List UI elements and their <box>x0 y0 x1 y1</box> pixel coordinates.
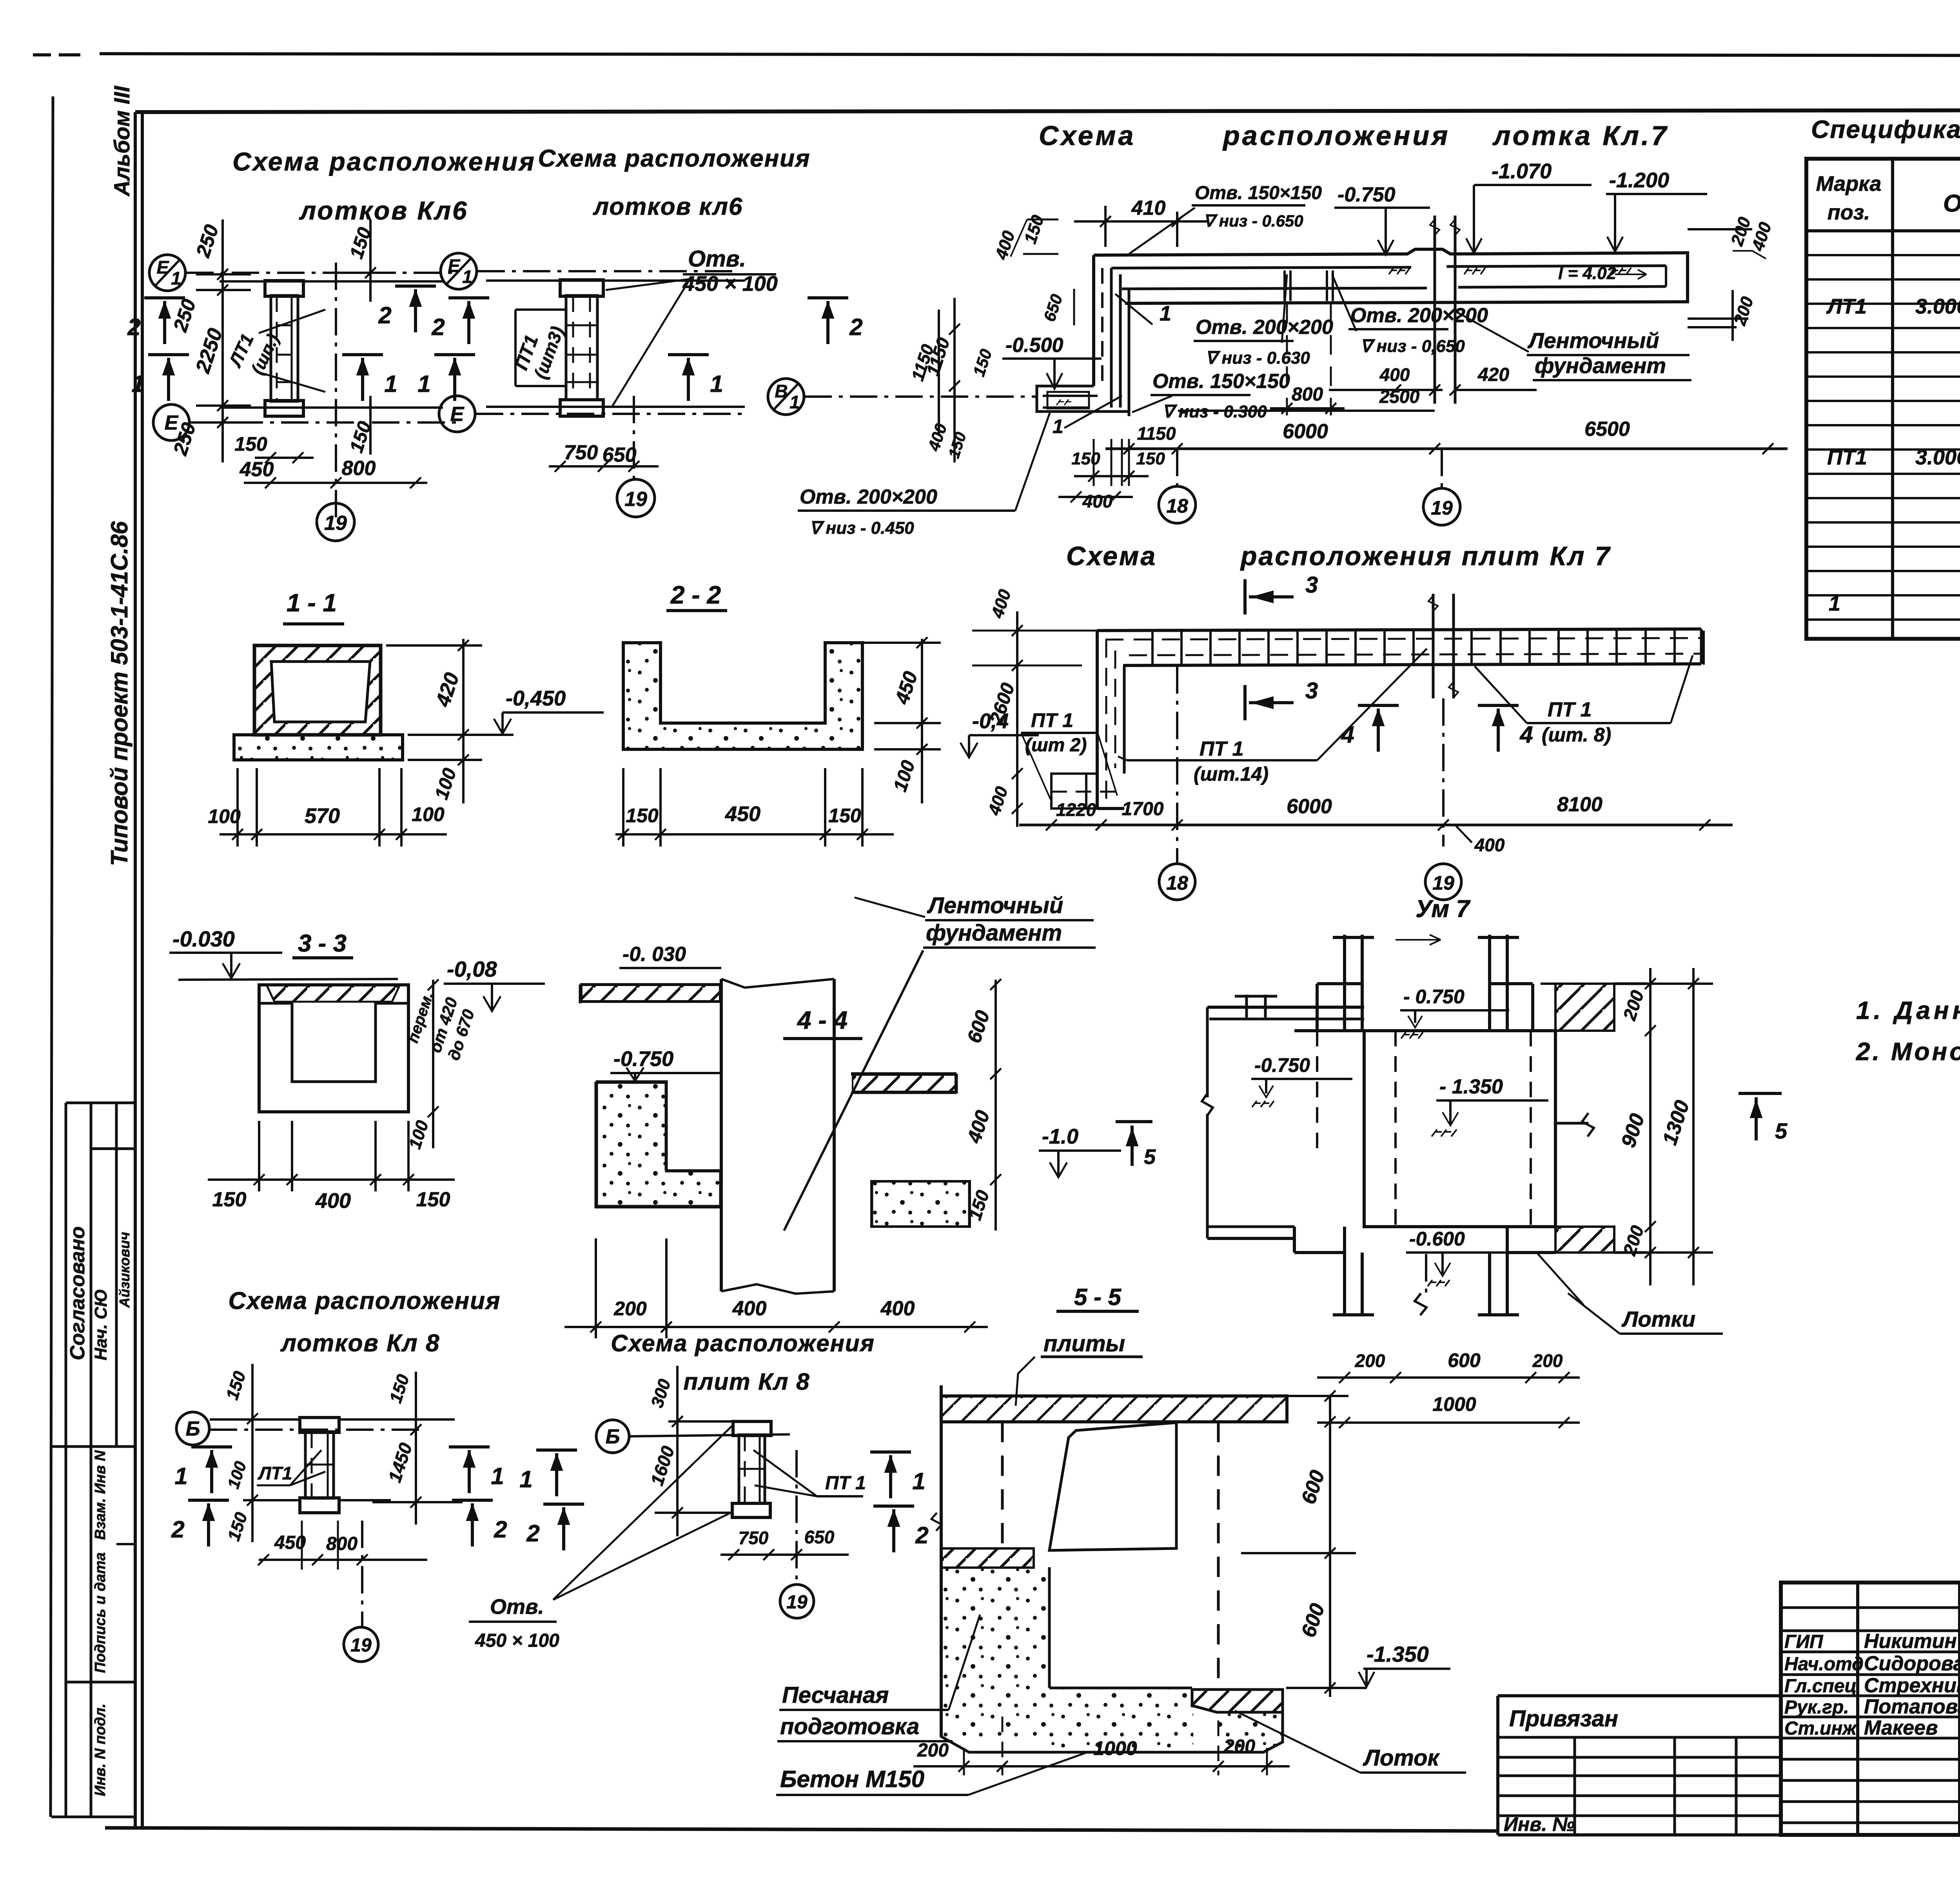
svg-text:2: 2 <box>431 314 445 340</box>
um7 left arm bottom band <box>1207 1225 1294 1228</box>
svg-text:-0.030: -0.030 <box>172 926 235 951</box>
bottom dims plan2 <box>549 465 659 468</box>
svg-text:- 0.750: - 0.750 <box>1403 986 1465 1008</box>
4-4 left footing step <box>596 1082 721 1171</box>
svg-text:2: 2 <box>378 302 391 328</box>
svg-text:Лотки: Лотки <box>1621 1307 1695 1331</box>
right short dim 150 pair <box>369 219 372 302</box>
svg-text:фундамент: фундамент <box>1535 353 1666 378</box>
4-4 right dim column <box>995 980 997 1231</box>
svg-text:расположения: расположения <box>1222 120 1450 151</box>
svg-text:l = 4.02: l = 4.02 <box>1558 264 1617 283</box>
spec table grid <box>1806 159 1960 639</box>
svg-text:1: 1 <box>1160 302 1171 325</box>
4-4 left slab hatched <box>580 983 721 986</box>
svg-text:2: 2 <box>915 1522 928 1548</box>
svg-text:200: 200 <box>1355 1351 1385 1371</box>
svg-text:3.006.1-2/82 вып. 1-1: 3.006.1-2/82 вып. 1-1 <box>1915 295 1960 318</box>
svg-text:1: 1 <box>462 266 472 287</box>
um7 left arm break <box>1202 1093 1213 1115</box>
svg-text:ПТ 1: ПТ 1 <box>825 1473 866 1494</box>
svg-text:Лоток: Лоток <box>1363 1745 1440 1771</box>
svg-text:19: 19 <box>350 1635 372 1656</box>
svg-text:Отв. 150×150: Отв. 150×150 <box>1195 183 1322 203</box>
plate ticks <box>1151 631 1154 665</box>
svg-text:750: 750 <box>564 441 598 464</box>
bottom dims 2-2 <box>615 833 894 836</box>
svg-text:(шт.14): (шт.14) <box>1194 763 1269 785</box>
svg-text:1: 1 <box>491 1463 504 1489</box>
svg-text:1: 1 <box>384 371 397 397</box>
svg-text:лотка Кл.7: лотка Кл.7 <box>1492 120 1669 151</box>
section mark 3 lower <box>1243 685 1247 720</box>
5-5 concrete speckle <box>942 1568 1048 1741</box>
svg-text:800: 800 <box>342 457 376 480</box>
bottom dims plan1 <box>255 457 314 459</box>
title block outer <box>1781 1583 1960 1835</box>
svg-text:Отв. 150×150: Отв. 150×150 <box>1152 370 1290 393</box>
svg-text:плиты: плиты <box>1044 1331 1125 1356</box>
svg-text:ЛТ1: ЛТ1 <box>1826 295 1867 318</box>
svg-text:Инв. №: Инв. № <box>1504 1813 1575 1835</box>
axis circle E <box>153 404 189 441</box>
kl8-1 bottom dims <box>259 1559 427 1561</box>
axis lines #2 <box>477 270 733 272</box>
svg-text:Сидорова: Сидорова <box>1864 1652 1960 1675</box>
svg-text:400: 400 <box>1379 364 1410 385</box>
svg-text:∇ низ - 0.650: ∇ низ - 0.650 <box>1203 212 1303 230</box>
svg-text:1: 1 <box>789 392 800 412</box>
svg-text:-0.750: -0.750 <box>1338 183 1396 206</box>
kl8-1 section marks <box>191 1445 232 1448</box>
svg-text:400: 400 <box>732 1297 767 1320</box>
section marks plan2 <box>448 296 489 299</box>
dim 420/100 right of 1-1 <box>462 639 465 803</box>
sidebar approval table <box>66 1102 135 1104</box>
kl8-2 otv leaders <box>553 1424 734 1600</box>
svg-text:-0,08: -0,08 <box>447 957 497 981</box>
svg-text:200: 200 <box>613 1298 647 1320</box>
svg-text:-1.200: -1.200 <box>1609 169 1669 192</box>
svg-text:18: 18 <box>1166 872 1188 894</box>
kl7 band outline <box>1094 249 1688 303</box>
svg-text:лотков кл6: лотков кл6 <box>593 193 743 220</box>
5-5 mid hatch strip <box>941 1548 1034 1568</box>
svg-text:100: 100 <box>208 805 241 827</box>
4-4 bottom dims <box>564 1326 988 1328</box>
section marks plan1 <box>144 296 185 299</box>
svg-text:5: 5 <box>1775 1118 1788 1143</box>
kl7 dims 150 150 400 under leg <box>1082 452 1172 453</box>
svg-text:Схема: Схема <box>1039 120 1136 151</box>
axis circle B kl8-2 <box>596 1420 629 1453</box>
svg-text:2500: 2500 <box>1379 386 1420 407</box>
center dashdot #2 <box>633 396 635 482</box>
privyazan table <box>1498 1694 1781 1697</box>
kl8-1 channel <box>300 1418 339 1432</box>
svg-text:1150: 1150 <box>1137 423 1176 444</box>
svg-text:Схема расположения: Схема расположения <box>538 145 810 172</box>
svg-text:2: 2 <box>494 1516 507 1543</box>
svg-text:-0.750: -0.750 <box>1254 1054 1310 1076</box>
svg-text:Бетон М150: Бетон М150 <box>780 1766 924 1792</box>
svg-text:1: 1 <box>710 371 723 397</box>
5-5 inner panel <box>1049 1423 1176 1550</box>
svg-text:Схема расположения: Схема расположения <box>611 1330 875 1356</box>
svg-text:Потапова: Потапова <box>1864 1695 1960 1718</box>
svg-text:Типовой проект 503-1-41С.86: Типовой проект 503-1-41С.86 <box>106 521 132 866</box>
plity bottom dims <box>1019 824 1733 827</box>
channel PT1 plan #2 <box>560 280 603 296</box>
axis circle B kl8-1 <box>176 1412 209 1445</box>
kl7 right end dims <box>1688 228 1752 230</box>
svg-text:(шт. 8): (шт. 8) <box>1542 724 1611 746</box>
kl7 dim 800 <box>1270 407 1345 410</box>
svg-text:Подпись и дата: Подпись и дата <box>92 1552 109 1673</box>
plity foot box <box>1051 774 1097 809</box>
svg-text:Отв.: Отв. <box>490 1595 544 1619</box>
dim 410 kl7 <box>1104 206 1107 247</box>
svg-text:3 - 3: 3 - 3 <box>298 930 347 957</box>
svg-text:Отв. 200×200: Отв. 200×200 <box>1196 316 1333 339</box>
svg-text:-0.600: -0.600 <box>1409 1228 1465 1250</box>
section 1-1 hatched walls <box>254 645 381 735</box>
svg-text:-1.350: -1.350 <box>1367 1642 1429 1666</box>
svg-text:Е: Е <box>157 257 169 277</box>
frame left double edge <box>134 112 137 1828</box>
svg-text:150: 150 <box>626 805 659 827</box>
um7 box <box>1364 1031 1555 1227</box>
kl7 left vertical dims <box>953 298 956 462</box>
svg-text:4: 4 <box>1341 721 1354 748</box>
svg-text:4: 4 <box>1519 721 1533 748</box>
dims right of 2-2 <box>921 639 923 803</box>
svg-text:570: 570 <box>305 804 340 828</box>
svg-text:∇ низ - 0.630: ∇ низ - 0.630 <box>1205 348 1310 368</box>
kl8-2 channel <box>733 1421 771 1436</box>
4-4 column <box>720 979 723 1291</box>
svg-text:-1.070: -1.070 <box>1492 160 1552 183</box>
section 2-2 body U-shape <box>623 643 862 749</box>
5-5 right dims <box>1329 1396 1331 1697</box>
kl7 left drop leg <box>1092 255 1095 386</box>
svg-text:-0. 030: -0. 030 <box>622 943 686 966</box>
sidebar outer edge <box>51 96 53 1817</box>
svg-text:плит Кл 8: плит Кл 8 <box>684 1369 810 1395</box>
svg-text:200: 200 <box>917 1740 949 1761</box>
grid circles 18 19 kl7 <box>1159 486 1196 523</box>
um7 right dims <box>1649 968 1651 1285</box>
svg-text:4 - 4: 4 - 4 <box>797 1006 848 1034</box>
svg-text:2 - 2: 2 - 2 <box>670 581 721 609</box>
svg-text:Отв. 200×200: Отв. 200×200 <box>1350 304 1488 327</box>
um7 bottom dims <box>1317 1376 1580 1379</box>
kl8-1 leader to circle 19 <box>361 1521 363 1626</box>
svg-text:400: 400 <box>315 1189 351 1213</box>
svg-text:150: 150 <box>828 805 861 827</box>
svg-text:19: 19 <box>324 512 347 535</box>
4-4 right slab <box>851 1072 956 1075</box>
section mark 3 upper <box>1243 579 1247 615</box>
svg-text:Е: Е <box>448 256 461 276</box>
svg-text:200: 200 <box>1532 1351 1563 1371</box>
svg-text:1: 1 <box>519 1466 532 1492</box>
svg-text:6000: 6000 <box>1287 795 1332 818</box>
svg-text:Гл.спец: Гл.спец <box>1784 1676 1857 1697</box>
svg-text:Ленточный: Ленточный <box>1527 328 1659 353</box>
svg-text:19: 19 <box>1431 497 1453 519</box>
frame bottom edge <box>105 1828 1499 1831</box>
detail circle 19 plan1 <box>317 503 354 541</box>
plity left leg <box>1096 631 1099 809</box>
kl8-1 left dim line <box>251 1364 254 1542</box>
kl7 dims 400 2500 420 <box>1329 389 1443 391</box>
svg-text:Ст.инж: Ст.инж <box>1784 1718 1857 1739</box>
svg-text:Е: Е <box>450 403 465 426</box>
svg-text:лотков Кл 8: лотков Кл 8 <box>280 1330 440 1357</box>
axis B/1 kl7 <box>768 379 804 415</box>
svg-text:Нач. СЮ: Нач. СЮ <box>91 1289 111 1360</box>
axis line E/1 <box>186 272 457 274</box>
um7 bottom stub <box>1343 1227 1346 1315</box>
svg-text:750: 750 <box>739 1528 769 1548</box>
svg-text:19: 19 <box>624 488 647 511</box>
5-5 concrete outline <box>941 1568 1283 1752</box>
svg-text:19: 19 <box>786 1592 808 1613</box>
svg-text:-1.0: -1.0 <box>1042 1125 1078 1148</box>
svg-text:400: 400 <box>1474 835 1505 855</box>
svg-text:Б: Б <box>606 1425 620 1448</box>
svg-text:8100: 8100 <box>1557 793 1602 816</box>
svg-text:1: 1 <box>171 268 181 288</box>
svg-text:3: 3 <box>1305 572 1318 598</box>
um7 right arm hatched plates <box>1555 984 1614 1031</box>
svg-text:∇ низ - 0.450: ∇ низ - 0.450 <box>809 518 914 538</box>
grid circles 18 19 plity <box>1159 864 1195 900</box>
svg-text:Отв.: Отв. <box>688 246 746 272</box>
detail circle 19 plan2 <box>617 479 655 517</box>
svg-text:2: 2 <box>171 1516 184 1543</box>
svg-text:5 - 5: 5 - 5 <box>1074 1284 1122 1310</box>
trench walls plan1 <box>220 280 443 283</box>
section 1-1 body <box>254 645 381 735</box>
svg-text:600: 600 <box>1448 1349 1481 1371</box>
svg-text:18: 18 <box>1166 495 1188 517</box>
kl8-2 circle 19 <box>780 1584 814 1618</box>
svg-text:Схема расположения: Схема расположения <box>228 1287 501 1314</box>
svg-text:Марка: Марка <box>1816 172 1882 196</box>
svg-text:В: В <box>775 381 788 401</box>
kl7 foot box <box>1037 386 1129 412</box>
svg-text:Айзикович: Айзикович <box>116 1232 132 1308</box>
svg-text:200: 200 <box>1223 1736 1255 1757</box>
section 1-1 base slab <box>234 735 403 760</box>
svg-text:Ум 7: Ум 7 <box>1416 896 1471 923</box>
svg-text:150: 150 <box>1071 449 1100 468</box>
svg-text:Привязан: Привязан <box>1509 1706 1618 1731</box>
svg-text:400: 400 <box>1082 491 1113 511</box>
um7 right arm <box>1555 1122 1588 1125</box>
svg-text:800: 800 <box>1292 384 1323 405</box>
svg-text:800: 800 <box>326 1534 358 1554</box>
label PT1 sht3 box <box>515 308 566 311</box>
svg-text:1: 1 <box>174 1463 187 1489</box>
svg-text:Инв. N подл.: Инв. N подл. <box>92 1704 109 1796</box>
svg-text:ПТ 1: ПТ 1 <box>1548 698 1592 721</box>
svg-text:450: 450 <box>240 458 274 481</box>
svg-text:Обозначение: Обозначение <box>1943 190 1960 217</box>
svg-text:150: 150 <box>1136 449 1165 468</box>
axis circle E/1 <box>149 255 185 291</box>
kl7 bottom dim row <box>1105 448 1788 450</box>
svg-text:- 1.350: - 1.350 <box>1439 1075 1503 1098</box>
svg-text:Песчаная: Песчаная <box>782 1682 889 1708</box>
svg-text:400: 400 <box>880 1297 915 1320</box>
svg-text:3.006.1-2/82 вып. 1-2: 3.006.1-2/82 вып. 1-2 <box>1915 446 1960 469</box>
svg-text:Альбом III: Альбом III <box>109 85 134 197</box>
svg-text:-0,450: -0,450 <box>506 687 566 710</box>
plity wall break grid19 <box>1432 594 1435 698</box>
svg-text:фундамент: фундамент <box>926 920 1062 946</box>
svg-text:Б: Б <box>186 1418 200 1440</box>
svg-text:ЛТ1: ЛТ1 <box>258 1463 292 1483</box>
svg-text:1 - 1: 1 - 1 <box>287 589 337 617</box>
svg-text:450: 450 <box>725 802 760 826</box>
5-5 top slab <box>941 1396 1287 1422</box>
kl8-2 vertical dim <box>676 1366 679 1536</box>
vertical dim line left of plan1 <box>221 219 224 462</box>
trench walls plan2 <box>486 279 745 282</box>
svg-text:поз.: поз. <box>1828 201 1870 224</box>
svg-text:450 × 100: 450 × 100 <box>475 1630 559 1651</box>
3-3 bottom dims <box>208 1178 455 1181</box>
kl8-1 right dim line <box>415 1372 417 1525</box>
svg-text:Ленточный: Ленточный <box>927 893 1063 918</box>
svg-text:Никитин: Никитин <box>1864 1630 1957 1653</box>
svg-text:Стрехнин: Стрехнин <box>1864 1674 1960 1697</box>
svg-text:(шт 2): (шт 2) <box>1025 735 1087 756</box>
svg-text:2. Монолитный участок Ум7 см.: 2. Монолитный участок Ум7 см. канал кл9. <box>1856 1037 1960 1066</box>
svg-text:410: 410 <box>1131 197 1166 219</box>
svg-text:ПТ 1: ПТ 1 <box>1031 709 1073 731</box>
svg-text:650: 650 <box>603 444 637 466</box>
svg-text:1. Данный лист см. с листами: 1. Данный лист см. с листами 15,16. <box>1856 996 1960 1024</box>
um7 bottom wall <box>1293 1227 1296 1253</box>
kl8-2 bottom dims <box>720 1554 849 1556</box>
axis line E <box>190 421 457 424</box>
svg-text:1: 1 <box>1053 415 1063 437</box>
svg-text:-0.750: -0.750 <box>613 1047 673 1071</box>
5-5 bottom dims <box>913 1765 1290 1767</box>
svg-text:подготовка: подготовка <box>780 1714 919 1739</box>
svg-text:Отв. 200×200: Отв. 200×200 <box>800 486 937 508</box>
svg-text:расположения плит Кл 7: расположения плит Кл 7 <box>1240 541 1611 571</box>
svg-text:Макеев: Макеев <box>1864 1717 1938 1739</box>
kl8-2 section marks <box>536 1448 577 1452</box>
svg-text:650: 650 <box>804 1527 835 1547</box>
svg-text:ГИП: ГИП <box>1784 1632 1824 1652</box>
band seams <box>1283 270 1286 301</box>
svg-text:Нач.отд: Нач.отд <box>1784 1654 1864 1675</box>
5-5 lotok piece <box>1192 1690 1283 1712</box>
kl8-2 center dashdot <box>795 1450 798 1583</box>
svg-text:150: 150 <box>416 1188 450 1211</box>
svg-text:ПТ1: ПТ1 <box>1827 446 1867 469</box>
svg-text:∇ низ - 0,650: ∇ низ - 0,650 <box>1360 337 1465 356</box>
section mark 4 pair <box>1358 704 1399 707</box>
svg-text:2: 2 <box>526 1520 539 1546</box>
um7 left arm end plates <box>1245 995 1248 1019</box>
svg-text:5: 5 <box>1144 1145 1156 1169</box>
svg-text:1700: 1700 <box>1122 799 1164 819</box>
svg-text:19: 19 <box>1432 872 1454 894</box>
svg-text:1: 1 <box>131 371 144 397</box>
kl7 column grid19 <box>1434 216 1436 404</box>
svg-text:1: 1 <box>1829 592 1840 615</box>
center dashdot vertical plan1 <box>335 263 337 517</box>
channel LT1 plan #1 <box>265 281 303 296</box>
title block signature grid <box>1856 1583 1859 1835</box>
svg-text:ПТ 1: ПТ 1 <box>1200 738 1244 760</box>
svg-text:Согласовано: Согласовано <box>66 1226 89 1360</box>
svg-text:Схема расположения: Схема расположения <box>232 147 536 176</box>
svg-text:Рук.гр.: Рук.гр. <box>1784 1697 1849 1718</box>
svg-text:Схема: Схема <box>1066 541 1157 571</box>
um7 top stub <box>1343 935 1346 1031</box>
axis circle E/1 #2 <box>441 253 477 289</box>
right rotated dims 3-3 <box>432 980 434 1148</box>
plity band <box>1097 629 1701 631</box>
frame top edge <box>135 110 1960 112</box>
section 3-3 body <box>259 985 408 1112</box>
plity left dims <box>1016 611 1018 827</box>
4-4 right footing <box>871 1181 970 1227</box>
svg-text:-0.500: -0.500 <box>1005 334 1063 357</box>
svg-text:Взам. Инв N: Взам. Инв N <box>92 1450 109 1540</box>
svg-text:420: 420 <box>1477 364 1509 385</box>
svg-text:1000: 1000 <box>1093 1737 1137 1759</box>
um7 section 5 marks <box>1739 1092 1782 1095</box>
bottom dims 1-1 <box>220 833 447 836</box>
svg-text:3: 3 <box>1305 678 1318 703</box>
svg-text:1: 1 <box>912 1468 925 1494</box>
svg-text:100: 100 <box>412 803 445 825</box>
svg-text:6500: 6500 <box>1584 418 1630 441</box>
top trim line <box>33 53 51 56</box>
svg-text:6000: 6000 <box>1283 420 1328 443</box>
svg-text:1000: 1000 <box>1432 1393 1476 1415</box>
svg-text:2: 2 <box>849 314 862 340</box>
svg-text:2: 2 <box>127 314 140 340</box>
kl8-1 trench edges <box>210 1418 301 1421</box>
svg-text:150: 150 <box>212 1188 247 1211</box>
svg-text:1220: 1220 <box>1056 799 1096 820</box>
svg-text:Спецификация к схемам располо: Спецификация к схемам расположения канал… <box>1811 115 1960 143</box>
svg-text:1: 1 <box>417 371 430 397</box>
svg-text:150: 150 <box>234 433 267 455</box>
axis circle E #2 <box>439 396 475 432</box>
um7 left arm top band <box>1207 1006 1364 1009</box>
um7 top wall <box>1317 982 1362 985</box>
svg-text:лотков Кл6: лотков Кл6 <box>299 196 468 225</box>
5-5 walls <box>940 1385 943 1737</box>
kl7 ground hatches <box>1389 268 1410 274</box>
